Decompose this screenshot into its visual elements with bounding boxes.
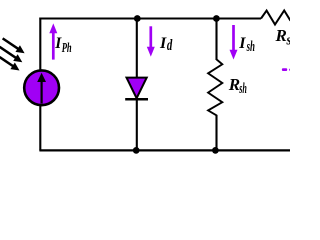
wire: from current source bottom to bottom rail <box>39 105 41 151</box>
minus sign continuation sliver at edge <box>289 69 290 71</box>
current arrow Ish (purple, down) <box>232 25 235 51</box>
svg-text:sh: sh <box>246 39 255 55</box>
node junction: bottom of shunt branch <box>212 147 219 154</box>
resistor Rsh (vertical zigzag) <box>208 59 222 115</box>
current source arrowhead <box>37 73 46 82</box>
current arrow Id (purple, down) <box>149 26 152 48</box>
arrowhead IPh <box>49 23 57 33</box>
svg-text:I: I <box>238 35 246 52</box>
svg-text:s: s <box>286 33 290 49</box>
minus sign (purple, output terminal, cut off at edge) <box>282 68 287 71</box>
diode cathode bar <box>125 98 148 101</box>
arrowhead Ish <box>230 50 238 60</box>
resistor Rs (series, top right, cut off at edge) <box>261 11 291 25</box>
wire: diode cathode to bottom rail <box>136 99 138 150</box>
photon arrow 2 (light ray) <box>0 44 25 66</box>
wire: shunt branch from top rail to Rsh <box>215 19 217 61</box>
photon arrow 3 (light ray) <box>0 54 22 74</box>
svg-text:d: d <box>167 37 173 54</box>
current source IPh (circle with up arrow) <box>24 70 59 105</box>
wire: diode branch from top rail to diode anode <box>136 19 138 79</box>
node junction: top of diode branch <box>134 15 141 22</box>
photon arrow 1 (light ray) <box>0 35 26 56</box>
wire: top rail from left corner to series resistor <box>39 17 261 19</box>
svg-text:sh: sh <box>239 81 247 97</box>
current arrow IPh (purple, up) <box>52 33 55 60</box>
current source arrow <box>40 80 42 104</box>
node junction: top of shunt branch <box>213 15 220 22</box>
svg-text:I: I <box>159 35 167 52</box>
svg-text:R: R <box>228 75 240 94</box>
svg-text:R: R <box>275 26 287 45</box>
wire: bottom rail <box>39 149 290 151</box>
svg-text:Ph: Ph <box>62 41 72 56</box>
arrowhead Id <box>147 47 155 57</box>
wire: left branch vertical from top rail down to current source <box>39 18 41 71</box>
wire: Rsh to bottom rail <box>215 115 217 150</box>
diode D (purple triangle) <box>127 78 147 99</box>
node junction: bottom of diode branch <box>133 147 140 154</box>
